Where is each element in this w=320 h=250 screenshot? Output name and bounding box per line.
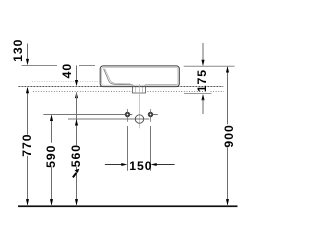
svg-text:40: 40	[60, 63, 74, 79]
svg-text:130: 130	[11, 39, 25, 62]
svg-text:590: 590	[44, 145, 58, 168]
svg-text:175: 175	[195, 69, 209, 92]
svg-text:150: 150	[129, 159, 152, 173]
svg-text:900: 900	[222, 124, 236, 147]
svg-text:770: 770	[20, 133, 34, 156]
svg-text:560: 560	[69, 144, 83, 167]
